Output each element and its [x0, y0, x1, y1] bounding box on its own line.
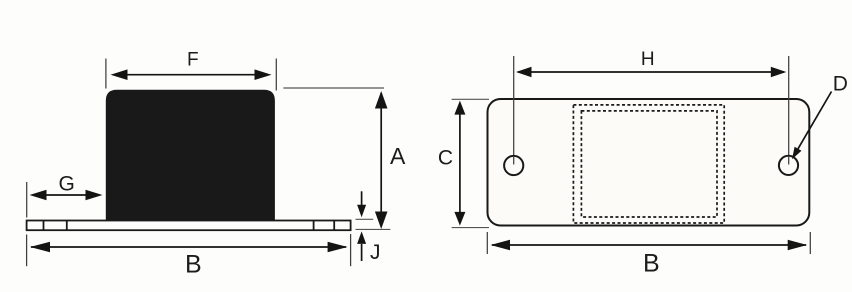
svg-text:D: D: [833, 72, 848, 95]
svg-text:H: H: [641, 49, 655, 70]
svg-text:G: G: [59, 172, 75, 195]
svg-text:J: J: [370, 241, 381, 264]
svg-text:B: B: [185, 250, 202, 278]
svg-text:C: C: [438, 147, 453, 170]
svg-text:B: B: [643, 250, 660, 278]
svg-text:A: A: [390, 143, 406, 169]
svg-text:F: F: [187, 49, 199, 70]
